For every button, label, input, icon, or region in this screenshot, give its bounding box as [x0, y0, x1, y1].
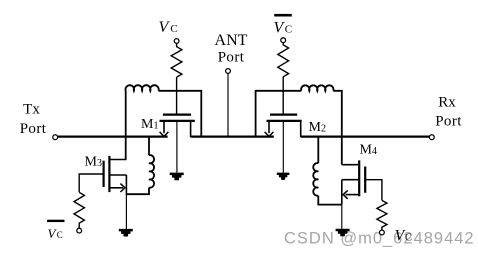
wire: node Tx stem (L1 left lead / M3 drain)	[125, 91, 127, 160]
wire: node Rx stem (L2 right lead / M4 drain)	[333, 91, 342, 165]
wire: L1 right lead down to M1 drain node	[159, 91, 202, 137]
label M3	[85, 155, 103, 170]
VC terminal (bottom right)	[380, 230, 385, 235]
svg-text:V: V	[395, 228, 406, 245]
svg-text:M: M	[360, 143, 373, 158]
wire: L4 bottom lead to M4 source node	[318, 196, 342, 205]
wire: main line, M2 drain to Rx port	[301, 136, 430, 138]
svg-text:M: M	[141, 117, 154, 132]
transistor M2 (series NMOS: gate bar, channel bar, source arrow, drain)	[265, 115, 302, 137]
wire: M1 bulk to ground	[176, 122, 178, 173]
wire: M4 gate lead to R4	[365, 180, 382, 201]
label VC (bottom right)	[395, 228, 412, 245]
label VC-bar (bottom left)	[47, 220, 64, 241]
transistor M3 (shunt NMOS left: gate bar, channel bar, drain tap, bulk tap, source arrow)	[104, 156, 127, 195]
wire: main line, Tx port to M1 source	[58, 136, 168, 138]
svg-text:Port: Port	[435, 114, 462, 130]
svg-text:3: 3	[97, 158, 102, 169]
wire: ANT stem	[227, 73, 229, 136]
Rx port terminal	[429, 135, 434, 140]
wire: M2 bulk to ground	[282, 122, 284, 173]
wire: M4 source to ground	[341, 205, 343, 229]
VC terminal (top left)	[174, 39, 179, 44]
resistor R1 (VC to M1 gate)	[171, 43, 182, 77]
label M2	[309, 120, 327, 135]
wire: L4 top lead from main line	[317, 137, 319, 163]
wire: M3 gate lead to R3	[79, 174, 103, 192]
wire: main line, M1 drain to M2 source (ANT node)	[191, 136, 274, 138]
svg-text:Port: Port	[218, 50, 245, 66]
wire: L2 left lead down to ANT-side node	[256, 91, 302, 137]
ANT port terminal	[226, 69, 231, 74]
label M1	[141, 117, 159, 132]
inductor L2 (across M2)	[301, 85, 333, 90]
label M4	[360, 143, 378, 158]
svg-text:Rx: Rx	[438, 95, 456, 111]
wire: M3 source to ground	[125, 195, 127, 230]
wire: L3 bottom lead to M3 source node	[126, 188, 149, 195]
svg-text:Port: Port	[20, 121, 47, 137]
svg-text:M: M	[309, 120, 322, 135]
resistor R2 (VC-bar to M2 gate)	[278, 43, 289, 77]
svg-text:C: C	[170, 23, 177, 35]
wire: R1 to M1 gate	[176, 77, 178, 113]
Tx port terminal	[53, 135, 58, 140]
wire: L3 top lead from main line	[148, 137, 150, 155]
resistor R4 (M4 gate to VC)	[377, 200, 387, 230]
VC-bar terminal (bottom left)	[77, 228, 82, 233]
svg-text:M: M	[85, 155, 98, 170]
svg-text:2: 2	[321, 124, 326, 135]
ground (M3 source)	[119, 229, 133, 237]
svg-text:4: 4	[372, 146, 377, 157]
resistor R3 (M3 gate to VC-bar)	[74, 192, 84, 228]
transistor M4 (shunt NMOS right: gate bar, channel bar, drain tap, bulk tap, source arrow)	[342, 160, 365, 204]
label VC-bar (top right)	[274, 14, 293, 37]
ground (M1 bulk)	[170, 173, 184, 181]
label ANT Port	[215, 32, 248, 66]
VC-bar terminal (top right)	[281, 38, 286, 43]
svg-text:C: C	[285, 23, 292, 35]
svg-text:C: C	[405, 233, 412, 244]
svg-text:Tx: Tx	[23, 102, 40, 118]
ground (M4 source)	[336, 229, 350, 237]
svg-text:1: 1	[154, 121, 159, 132]
inductor L4 (shunt, parallel with M4)	[313, 163, 318, 196]
wire: R2 to M2 gate	[282, 77, 284, 114]
inductor L1 (across M1)	[125, 85, 158, 91]
svg-text:ANT: ANT	[215, 32, 248, 49]
svg-text:C: C	[57, 230, 63, 240]
ground (M2 bulk)	[277, 173, 290, 180]
label Rx Port	[435, 95, 462, 130]
label VC (top left)	[159, 19, 178, 36]
inductor L3 (shunt, parallel with M3)	[149, 155, 154, 188]
transistor M1 (series NMOS: gate bar, channel bar, source arrow, drain)	[160, 115, 195, 137]
label Tx Port	[20, 102, 47, 137]
